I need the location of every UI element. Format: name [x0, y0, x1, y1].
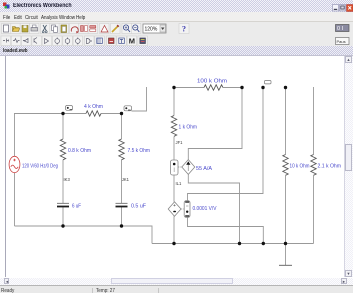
wire 7.5k top — [121, 114, 123, 140]
junction rail VCVS — [172, 242, 175, 245]
wire VCVS diamond to rail — [173, 216, 175, 243]
wire 0.8k top — [62, 114, 64, 140]
junction rail C2 — [120, 224, 123, 227]
svg-text:IK3: IK3 — [64, 177, 71, 182]
VCVS E1 diamond 0.0001 V/V — [168, 202, 184, 217]
wire 0.8k to cap C1 — [62, 160, 64, 204]
wire sensor box to VCVS diamond — [173, 175, 175, 202]
node A (100k left) — [172, 86, 175, 89]
svg-text:JF1: JF1 — [176, 140, 184, 145]
svg-text:7.5 k Ohm: 7.5 k Ohm — [128, 148, 151, 154]
svg-text:120 V/60 Hz/0 Deg: 120 V/60 Hz/0 Deg — [22, 164, 58, 170]
label box L2 — [124, 106, 132, 111]
wire source top — [14, 114, 16, 157]
capacitor C2 0.5 uF — [116, 202, 128, 204]
resistor R1 4 k Ohm (horizontal) — [86, 111, 101, 116]
wire 2.1k top — [313, 87, 315, 155]
wire CCCS bottom to rail — [188, 174, 239, 243]
power switch button — [335, 24, 350, 32]
wire cap C2 to rail — [121, 207, 123, 227]
wire lower bottom rail — [152, 243, 314, 245]
wire 10k bottom — [285, 176, 287, 244]
wire from label box L2 to riser — [132, 87, 147, 111]
wire source bottom — [14, 173, 16, 227]
wire 4k right lead — [101, 113, 122, 115]
resistor R5 1 k Ohm (vertical) — [171, 116, 176, 137]
svg-text:10 k Ohm: 10 k Ohm — [290, 164, 310, 170]
junction node at R1 right — [120, 112, 123, 115]
svg-text:0.5 uF: 0.5 uF — [131, 204, 146, 210]
node D (10k top) — [284, 86, 287, 89]
resistor R4 100 k Ohm (horizontal) — [204, 85, 223, 90]
label box L1 — [66, 106, 73, 111]
svg-text:2.1 k Ohm: 2.1 k Ohm — [318, 164, 342, 170]
CCCS F1 diamond 55 A/A — [178, 160, 195, 175]
svg-text:55 A/A: 55 A/A — [196, 166, 213, 172]
svg-text:0.0001 V/V: 0.0001 V/V — [193, 206, 218, 212]
wire VCVS box top to node C — [188, 88, 264, 201]
wire CCCS top to node B — [188, 88, 242, 160]
wire ground lead — [285, 244, 287, 266]
svg-text:JK1: JK1 — [122, 177, 130, 182]
wire 1k top — [173, 88, 175, 116]
wire top-left horizontal — [14, 113, 63, 115]
AC source V1 120V/60Hz — [9, 156, 20, 172]
svg-text:IL1: IL1 — [176, 181, 182, 186]
junction rail ground — [284, 242, 287, 245]
wire 100k right lead — [223, 87, 242, 89]
svg-text:0.8 k Ohm: 0.8 k Ohm — [68, 148, 91, 154]
wire 1k to sensor box — [173, 137, 175, 161]
CCCS F1 sensor box — [171, 160, 179, 175]
resistor R2 0.8 k Ohm (vertical) — [60, 139, 65, 160]
capacitor C1 6 uF — [57, 202, 69, 204]
wire VCVS box bottom to rail — [188, 217, 264, 244]
svg-text:6 uF: 6 uF — [72, 204, 81, 210]
junction rail CCCS return — [238, 242, 241, 245]
resistor R7 2.1 k Ohm (vertical) — [311, 155, 316, 176]
resistor R6 10 k Ohm (vertical) — [283, 155, 288, 176]
junction node at R1 left — [61, 112, 64, 115]
wire cap C1 to rail — [62, 207, 64, 227]
ground — [279, 264, 292, 266]
wire 10k top — [285, 88, 287, 155]
junction rail C1 — [61, 224, 64, 227]
wire 7.5k to cap C2 — [121, 160, 123, 204]
wire left bottom rail — [15, 226, 153, 244]
VCVS E1 control box — [184, 201, 190, 218]
junction rail node C return — [262, 242, 265, 245]
node C — [261, 86, 264, 89]
resistor R3 7.5 k Ohm (vertical) — [119, 139, 124, 160]
svg-text:4 k Ohm: 4 k Ohm — [84, 104, 103, 110]
wire 2.1k branch right side — [313, 176, 315, 244]
wire 4k left lead — [63, 113, 86, 115]
svg-text:1 k Ohm: 1 k Ohm — [179, 125, 198, 131]
wire 100k left lead — [174, 87, 204, 89]
pause button — [335, 37, 350, 45]
svg-text:100 k Ohm: 100 k Ohm — [197, 79, 227, 85]
label box above node C — [265, 81, 272, 84]
node B (100k right) — [240, 86, 243, 89]
